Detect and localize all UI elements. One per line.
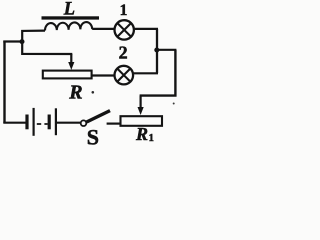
rheostat R body: [43, 71, 92, 79]
wire left rail: [3, 41, 5, 123]
switch S lever: [87, 111, 110, 122]
lamp 1 bulb: [115, 20, 134, 39]
node B junction dot: [154, 48, 159, 53]
wire node A up to inductor: [22, 31, 45, 42]
wire left rail to battery: [3, 122, 25, 124]
svg-text:R: R: [68, 81, 82, 103]
rheostat R slider arrow: [68, 54, 74, 70]
svg-text:1: 1: [149, 133, 154, 144]
battery dashes between cells: [37, 123, 48, 125]
rheostat R1 slider arrow: [138, 96, 144, 115]
wire top-left horizontal to node A: [3, 40, 22, 42]
battery cell 2 short plate: [48, 115, 51, 130]
svg-text:S: S: [87, 124, 99, 149]
svg-text:2: 2: [119, 43, 128, 63]
rheostat R1 body: [121, 116, 163, 126]
svg-text:1: 1: [120, 2, 128, 19]
wire right mid vertical: [156, 29, 158, 73]
svg-text:L: L: [63, 0, 75, 20]
wire right rail down: [174, 50, 176, 97]
switch S pivot: [81, 120, 87, 126]
wire node A down: [22, 42, 72, 54]
inductor L iron core bar: [42, 16, 100, 19]
wire lamp 2 to right mid vertical: [133, 72, 158, 74]
wire lamp 1 to right corner: [134, 28, 158, 30]
speck near R: [92, 91, 95, 94]
lamp 2 bulb: [115, 66, 134, 85]
wire rheostat R1 to switch contact: [107, 122, 121, 124]
inductor L coil: [45, 22, 92, 30]
battery cell 1 long plate: [32, 108, 34, 136]
battery cell 2 long plate: [55, 108, 57, 135]
wire node B branch right: [157, 49, 176, 51]
battery cell 1 short plate: [25, 115, 28, 130]
wire horizontal above rheostat R1: [140, 94, 177, 96]
svg-text:R: R: [135, 124, 148, 144]
wire inductor to lamp 1: [92, 28, 115, 30]
wire rheostat R to lamp 2: [92, 74, 115, 76]
node A junction dot: [20, 39, 25, 44]
wire battery to switch pivot: [57, 122, 81, 124]
speck near right rail: [173, 103, 175, 105]
